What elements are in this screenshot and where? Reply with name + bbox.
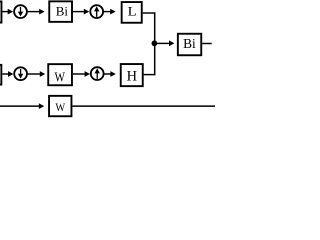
arrowhead into upsampler U1 [84,9,89,15]
wire [2,11,8,13]
box H [121,64,143,86]
wire row 3 input [0,105,39,107]
arrowhead into downsampler D1 [8,9,13,15]
wire from H to junction column [144,74,156,76]
svg-text:H: H [127,69,137,85]
wire [72,11,84,13]
box B0a (input box row 1, cut off at left edge) [0,1,1,22]
arrowhead into box W2 [40,71,45,77]
upsampler U1 (circle, up arrow) [90,5,103,18]
arrowhead into box W3 [39,103,44,109]
arrowhead into box H [110,71,115,77]
wire row 3 output [72,105,215,107]
wire [28,73,41,75]
downsampler D2 (circle, down arrow) [14,67,27,80]
arrowhead into box Bi1 [39,9,44,15]
box Bi2 [178,34,201,56]
wire [2,73,9,75]
arrowhead into downsampler D2 [8,71,13,77]
wire from junction [155,42,170,44]
svg-text:Bi: Bi [183,36,196,51]
svg-text:W: W [55,101,65,114]
wire out of Bi2 [202,43,212,45]
node junction dot [152,40,158,46]
arrowhead into box L [110,9,115,15]
arrowhead into box Bi2 [169,40,174,46]
svg-text:W: W [55,70,66,85]
wire [73,73,85,75]
wire [104,11,111,13]
box L [122,2,142,23]
svg-text:L: L [128,4,137,19]
box B0b (input box row 2, cut off at left edge) [0,65,1,85]
box W2 [48,64,72,85]
wire [28,11,40,13]
wire from L to junction column [143,12,156,14]
arrowhead into upsampler U2 [85,71,90,77]
upsampler U2 (circle, up arrow) [91,67,104,80]
svg-text:Bi: Bi [56,4,69,19]
box Bi1 [49,1,72,22]
wire [104,73,111,75]
downsampler D1 (circle, down arrow) [14,5,27,18]
box W3 [49,96,71,116]
wire vertical connector [154,12,156,75]
